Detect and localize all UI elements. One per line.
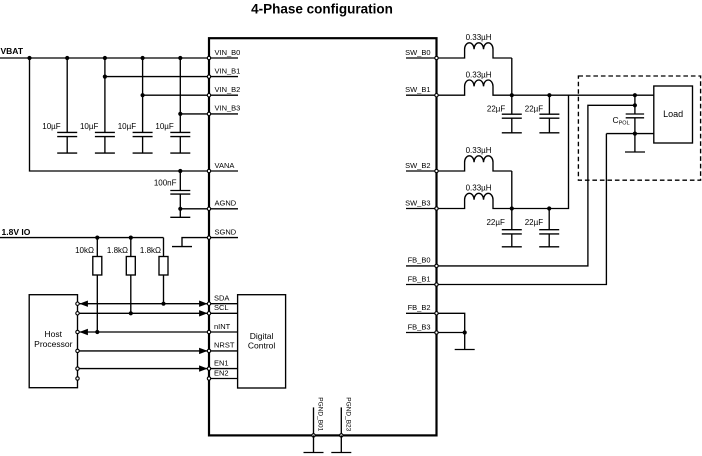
- wire branch C2 / VIN_B1 feed: [105, 58, 208, 132]
- junction dot rail R2: [129, 236, 133, 240]
- svg-text:EN1: EN1: [214, 358, 229, 367]
- svg-text:FB_B2: FB_B2: [408, 303, 431, 312]
- junction dot rail C6: [510, 93, 514, 97]
- svg-text:10µF: 10µF: [155, 122, 174, 131]
- svg-text:22µF: 22µF: [525, 104, 544, 113]
- junction dot rail C8: [510, 206, 514, 210]
- svg-text:PGND_B01: PGND_B01: [317, 397, 324, 431]
- resistor R1 10k: [75, 238, 102, 332]
- junction dot FB_B0 node: [633, 103, 637, 107]
- svg-text:FB_B1: FB_B1: [408, 274, 431, 283]
- junction dot SDA pullup: [161, 302, 165, 306]
- svg-text:22µF: 22µF: [487, 104, 506, 113]
- pin VANA: [207, 161, 238, 173]
- junction dot SCL pullup: [129, 311, 133, 315]
- svg-text:VBAT: VBAT: [1, 46, 24, 56]
- capacitor C5 100nF: [154, 171, 190, 209]
- host processor block: [29, 295, 77, 388]
- resistor R2 1.8k: [107, 238, 135, 314]
- arrow NRST right: [199, 348, 208, 354]
- wire FB_B2 to FB_B3: [438, 313, 465, 332]
- svg-text:Processor: Processor: [34, 339, 72, 349]
- wire EN1: [78, 368, 208, 370]
- pin SW_B1: [405, 85, 438, 97]
- svg-text:22µF: 22µF: [486, 218, 505, 227]
- wire lower output rail: [512, 95, 569, 208]
- svg-text:VIN_B2: VIN_B2: [215, 85, 241, 94]
- capacitor C3 10uF: [118, 122, 153, 153]
- pin SDA: [207, 294, 237, 306]
- junction dot AGND: [178, 207, 182, 211]
- wire top output rail: [512, 94, 654, 96]
- junction dot rail C7: [547, 93, 551, 97]
- host pin circles: [76, 302, 79, 380]
- pin FB_B2: [406, 303, 438, 315]
- pin VIN_B0: [207, 48, 240, 60]
- IC U1 main block: [209, 38, 437, 435]
- junction dot VANA: [178, 169, 182, 173]
- svg-text:10µF: 10µF: [42, 122, 61, 131]
- pin PGND_B01: [312, 397, 324, 437]
- arrow SDA left: [79, 301, 88, 307]
- wire VBAT rail: [0, 57, 208, 59]
- resistor R3 1.8k: [140, 238, 168, 304]
- svg-text:10kΩ: 10kΩ: [75, 246, 94, 255]
- svg-text:1.8V IO: 1.8V IO: [2, 227, 31, 237]
- wire L1 to SW_B1 node: [511, 58, 513, 95]
- pin SGND: [207, 227, 238, 239]
- svg-text:NRST: NRST: [214, 341, 235, 350]
- load block: [654, 86, 693, 143]
- ground CPOL: [625, 134, 645, 152]
- svg-text:AGND: AGND: [215, 199, 237, 208]
- pin FB_B1: [406, 274, 438, 286]
- pin EN1: [207, 358, 237, 370]
- junction dot VIN_B3: [178, 112, 182, 116]
- capacitor C6 22uF: [487, 95, 522, 133]
- capacitor C1 10uF: [42, 122, 77, 153]
- svg-text:VIN_B1: VIN_B1: [215, 66, 241, 75]
- inductor L2 0.33uH: [438, 70, 512, 95]
- capacitor C2 10uF: [80, 122, 115, 153]
- wire nINT: [78, 331, 208, 333]
- pin VIN_B3: [207, 104, 240, 116]
- pin nINT: [207, 322, 237, 334]
- junction dot CPOL bottom: [633, 132, 637, 136]
- svg-text:0.33µH: 0.33µH: [466, 146, 492, 155]
- pin PGND_B23: [340, 397, 352, 437]
- svg-text:100nF: 100nF: [154, 178, 177, 187]
- wire branch C4 / VIN_B3 feed: [180, 58, 207, 132]
- svg-text:VIN_B3: VIN_B3: [215, 104, 241, 113]
- wire AGND: [180, 208, 207, 210]
- wire FB_B0 sense: [438, 105, 635, 266]
- wire FB_B1 sense: [438, 134, 606, 285]
- pin SW_B2: [405, 161, 438, 173]
- svg-text:SGND: SGND: [215, 227, 237, 236]
- junction dot nINT pullup: [95, 330, 99, 334]
- inductor L3 0.33uH: [438, 146, 512, 171]
- svg-text:Digital: Digital: [250, 331, 274, 341]
- pin SW_B3: [405, 198, 438, 210]
- arrow SCL right: [199, 310, 208, 316]
- capacitor C8 22uF: [486, 209, 521, 247]
- junction dot CPOL top rail: [633, 93, 637, 97]
- arrow SDA right: [199, 301, 208, 307]
- wire 1.8V IO rail: [0, 237, 164, 239]
- junction dot FB_B3: [463, 330, 467, 334]
- junction dot VIN_B2: [141, 93, 145, 97]
- svg-text:Load: Load: [663, 109, 683, 119]
- junction dot rail R1: [95, 236, 99, 240]
- pin AGND: [207, 199, 238, 211]
- pin VIN_B2: [207, 85, 240, 97]
- pin EN2: [207, 368, 237, 380]
- svg-text:0.33µH: 0.33µH: [466, 184, 492, 193]
- pin SW_B0: [405, 48, 438, 60]
- svg-text:10µF: 10µF: [118, 122, 137, 131]
- arrow nINT left: [79, 329, 88, 335]
- arrow EN1 right: [199, 365, 208, 371]
- svg-text:Host: Host: [45, 329, 63, 339]
- ground SGND: [172, 238, 208, 247]
- svg-text:VANA: VANA: [215, 161, 235, 170]
- svg-text:1.8kΩ: 1.8kΩ: [140, 246, 161, 255]
- digital control block: [238, 295, 286, 388]
- svg-text:22µF: 22µF: [525, 218, 544, 227]
- svg-text:SDA: SDA: [214, 294, 229, 303]
- wire branch C3 / VIN_B2 feed: [143, 58, 208, 132]
- pin FB_B3: [406, 322, 438, 334]
- capacitor C4 10uF: [155, 122, 190, 153]
- capacitor C7 22uF: [525, 95, 560, 133]
- ground AGND: [170, 209, 190, 218]
- wire NRST: [78, 350, 208, 352]
- svg-text:PGND_B23: PGND_B23: [344, 397, 351, 431]
- svg-text:SW_B2: SW_B2: [405, 161, 430, 170]
- svg-text:FB_B0: FB_B0: [408, 256, 431, 265]
- pin SCL: [207, 303, 237, 315]
- svg-text:VIN_B0: VIN_B0: [215, 48, 241, 57]
- ground PGND_B01: [304, 435, 324, 452]
- junction dots VBAT rail: [27, 56, 182, 60]
- pin NRST: [207, 341, 237, 353]
- wire SCL: [78, 312, 208, 314]
- svg-text:EN2: EN2: [214, 368, 229, 377]
- inductor L4 0.33uH: [438, 184, 512, 209]
- wire VBAT left drop to VANA: [30, 58, 208, 171]
- wire L3 to SW_B3 node: [511, 171, 513, 209]
- junction dot rail C9: [547, 206, 551, 210]
- svg-text:0.33µH: 0.33µH: [466, 33, 492, 42]
- svg-text:SW_B0: SW_B0: [405, 48, 430, 57]
- inductor L1 0.33uH: [438, 33, 512, 58]
- svg-text:SCL: SCL: [214, 303, 229, 312]
- ground FB_B23: [455, 333, 475, 350]
- svg-text:Control: Control: [248, 341, 276, 351]
- wire branch C1: [66, 58, 68, 132]
- svg-text:10µF: 10µF: [80, 122, 99, 131]
- wire SDA: [78, 303, 208, 305]
- ground PGND_B23: [331, 435, 351, 452]
- pin FB_B0: [406, 256, 438, 268]
- dashed load boundary: [578, 76, 700, 180]
- svg-text:nINT: nINT: [214, 322, 231, 331]
- svg-text:1.8kΩ: 1.8kΩ: [107, 246, 128, 255]
- svg-text:SW_B3: SW_B3: [405, 198, 430, 207]
- pin VIN_B1: [207, 66, 240, 78]
- capacitor C9 22uF: [525, 209, 560, 247]
- junction dot VIN_B1: [103, 75, 107, 79]
- svg-text:4-Phase configuration: 4-Phase configuration: [251, 2, 393, 17]
- wire load return: [606, 133, 653, 135]
- svg-text:SW_B1: SW_B1: [405, 85, 430, 94]
- svg-text:FB_B3: FB_B3: [408, 322, 431, 331]
- capacitor CPOL: [613, 95, 645, 133]
- svg-text:0.33µH: 0.33µH: [466, 70, 492, 79]
